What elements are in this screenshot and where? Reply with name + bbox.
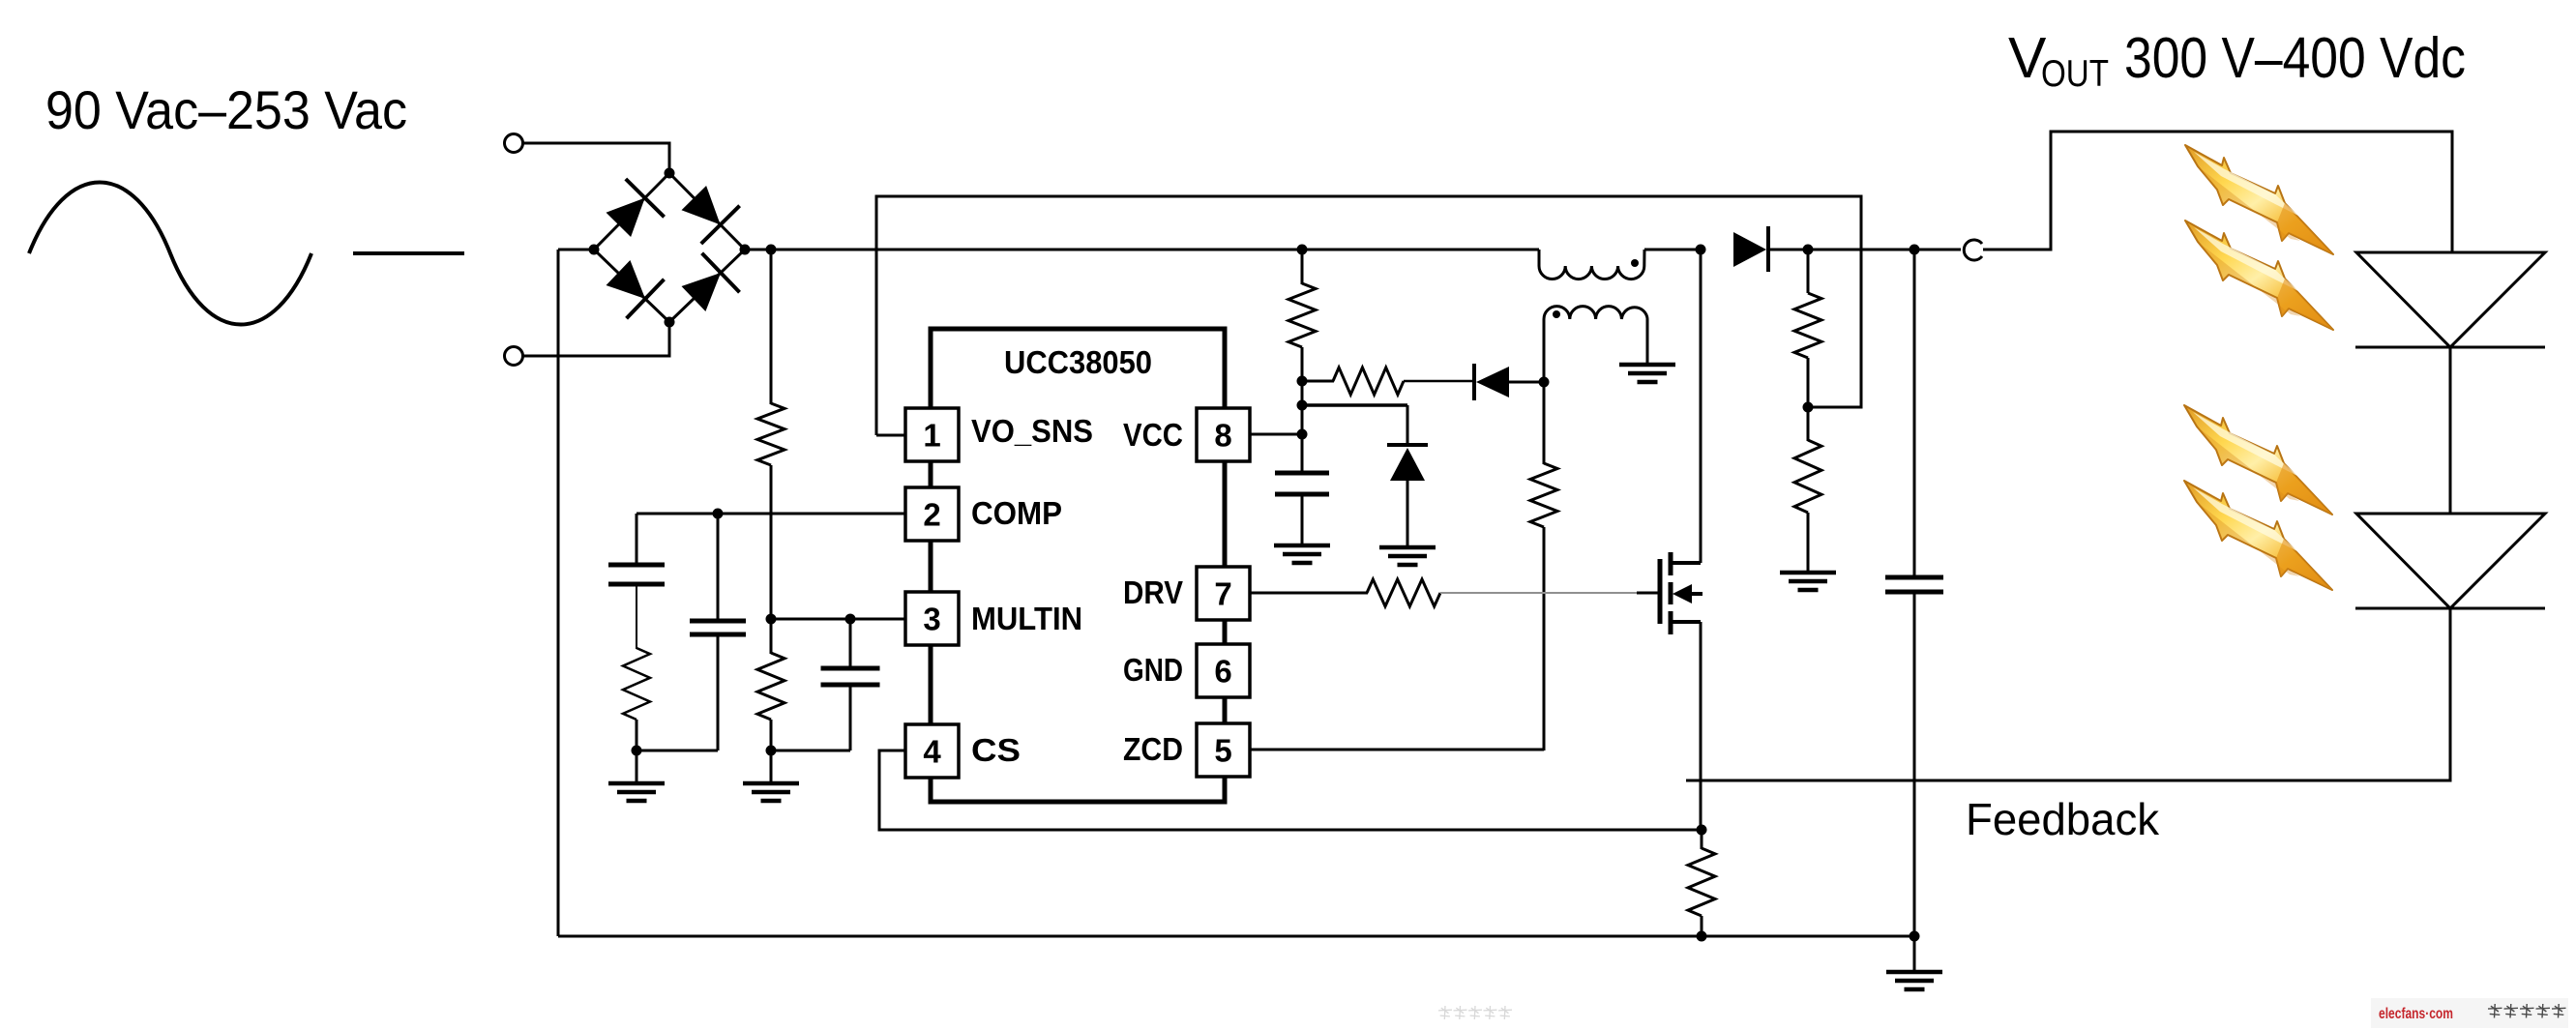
- wire zener branch: [1302, 403, 1407, 407]
- wire R9 to ground: [1807, 513, 1810, 573]
- transistor Q1 body arrow: [1673, 584, 1692, 603]
- watermark faint center: [1438, 1006, 1452, 1019]
- wire DRV pin7 to R7: [1250, 592, 1368, 595]
- wire secondary left to aux node: [1543, 319, 1546, 382]
- svg-text:3: 3: [923, 602, 940, 637]
- transistor Q1 drain stub: [1669, 561, 1701, 565]
- resistor R6 zcd: [1530, 463, 1557, 527]
- node vcc pin8 tap: [1297, 429, 1308, 440]
- pin 8 box: [1197, 408, 1250, 461]
- wire R10 bottom stub: [1701, 916, 1703, 936]
- wire R2 to ground node: [770, 720, 773, 750]
- svg-text:GND: GND: [1123, 652, 1183, 688]
- resistor R9 output divider lower: [1794, 440, 1821, 513]
- zener diode D6 cathode bar: [1387, 443, 1428, 447]
- bridge rectifier BR1 diamond frame: [594, 173, 745, 322]
- transistor Q1 channel segments: [1669, 552, 1673, 575]
- resistor R1 input divider upper: [757, 403, 785, 465]
- wire main boost rail: [745, 249, 1539, 251]
- wire D8 to D9: [2449, 347, 2452, 514]
- svg-text:6: 6: [1214, 654, 1231, 690]
- wire C terminal to load loop: [1983, 132, 2452, 252]
- wire R4 to node: [1301, 347, 1304, 474]
- pin 7 box: [1197, 567, 1250, 620]
- wire AC bottom terminal to bridge bottom: [523, 322, 669, 356]
- wire bridge left vertex to outer left rail: [558, 249, 594, 251]
- svg-text:VCC: VCC: [1123, 417, 1183, 453]
- wire mid node down to R9: [1807, 407, 1810, 441]
- svg-text:5: 5: [1214, 733, 1231, 769]
- wire C3 stub bottom: [849, 685, 852, 750]
- ground GND6 under divider: [1780, 571, 1836, 575]
- node output divider top: [1803, 245, 1814, 255]
- wire C2 down: [717, 634, 720, 750]
- wire D9 down to feedback: [1686, 608, 2450, 780]
- transistor Q1 source stub: [1669, 620, 1701, 624]
- terminal circle AC top: [505, 134, 523, 153]
- diode D5 aux rectifier cathode bar: [1472, 364, 1476, 400]
- wire G7 stub: [1913, 936, 1916, 972]
- wire CS pin4 loop: [879, 750, 1702, 830]
- AC source V1 sine wave symbol: [29, 183, 311, 325]
- diode D7 boost cathode bar: [1766, 226, 1770, 272]
- wire dash between source and bridge: [353, 251, 464, 255]
- capacitor C4 vcc: [1275, 471, 1329, 476]
- wire C5 down to rail: [1913, 592, 1916, 936]
- svg-text:ZCD: ZCD: [1123, 731, 1183, 767]
- node sense resistor bottom: [1697, 931, 1707, 942]
- svg-text:MULTIN: MULTIN: [971, 601, 1082, 636]
- diode D5 aux rectifier triangle: [1476, 367, 1509, 397]
- node rail tap x797: [766, 245, 777, 255]
- diode D8 load upper: [2356, 252, 2545, 347]
- zener diode D6 lead bottom: [1406, 481, 1409, 547]
- ground GND2 under divider: [770, 750, 773, 783]
- diode D7 boost triangle: [1733, 232, 1766, 267]
- svg-text:300 V–400 Vdc: 300 V–400 Vdc: [2124, 26, 2466, 90]
- transistor Q1 gate bar: [1658, 559, 1663, 624]
- lightning bolt icon 2: [2185, 221, 2333, 330]
- wire R8 to mid node: [1807, 358, 1810, 407]
- watermark elecfans chinese: [2488, 1004, 2502, 1018]
- node COMP branch: [713, 509, 724, 519]
- wire R6 down to ZCD wire: [1543, 527, 1546, 750]
- node vcc zener tap: [1297, 400, 1308, 411]
- svg-text:4: 4: [923, 734, 941, 770]
- svg-text:UCC38050: UCC38050: [1004, 345, 1152, 381]
- lightning bolt icon 3: [2184, 405, 2332, 515]
- bridge diode D3 left-to-bottom arm: [607, 260, 665, 318]
- node bridge right: [740, 245, 751, 255]
- wire divider to R8: [1807, 250, 1810, 293]
- wire VO_SNS sense loop: [876, 196, 1861, 435]
- svg-text:Feedback: Feedback: [1966, 794, 2160, 844]
- wire mid node to sense loop: [1808, 406, 1861, 409]
- svg-text:90 Vac–253 Vac: 90 Vac–253 Vac: [45, 79, 407, 140]
- node output divider mid: [1803, 402, 1814, 413]
- wire COMP left branch down to C1: [636, 514, 638, 566]
- ground GND3 under C4: [1274, 544, 1330, 548]
- node bridge bottom: [665, 317, 675, 328]
- zener diode D6 triangle: [1390, 448, 1425, 481]
- resistor R10 current sense: [1688, 848, 1715, 916]
- wire D5 to aux node: [1509, 381, 1544, 384]
- node divider bottom: [766, 746, 777, 756]
- zener diode D6 lead top: [1406, 405, 1409, 446]
- bridge diode D4 bottom-to-right arm: [682, 253, 740, 311]
- svg-text:OUT: OUT: [2041, 53, 2109, 95]
- diode D9 load lower: [2356, 514, 2545, 608]
- wire AC top terminal to bridge top: [523, 143, 669, 173]
- wire C3 stub top: [849, 619, 852, 669]
- wire gate stub: [1637, 592, 1658, 595]
- wire MULTIN pin3: [770, 618, 905, 621]
- node rail tap x1346: [1297, 245, 1308, 255]
- wire secondary right to ground: [1646, 319, 1649, 365]
- pin 5 box: [1197, 723, 1250, 777]
- ground GND1 under comp network: [636, 750, 638, 783]
- capacitor C2 comp: [690, 619, 746, 624]
- node bridge top: [665, 168, 675, 179]
- wire COMP pin2 to RC network: [637, 513, 905, 515]
- wire Q1 drain up to rail: [1700, 250, 1703, 563]
- node source sense: [1697, 825, 1707, 836]
- pin 3 box: [905, 592, 959, 645]
- node vcc aux: [1297, 376, 1308, 387]
- lightning bolt icon 4: [2184, 481, 2332, 590]
- capacitor C3 multin: [821, 666, 880, 671]
- svg-text:elecfans·com: elecfans·com: [2379, 1006, 2453, 1022]
- wire left outer rail down: [557, 250, 560, 936]
- resistor R4 vcc startup: [1288, 283, 1316, 347]
- watermark elecfans background: [2371, 998, 2568, 1028]
- inductor T1 secondary winding: [1544, 307, 1647, 319]
- svg-text:1: 1: [923, 418, 940, 454]
- wire bridge tap down to R1: [770, 250, 773, 404]
- terminal C output: [1964, 240, 1982, 260]
- ground GND7 bottom rail: [1886, 970, 1942, 975]
- wire ZCD pin5: [1250, 749, 1544, 751]
- ground GND5 under secondary: [1619, 363, 1675, 368]
- lightning bolt icon 1: [2185, 145, 2333, 254]
- node bridge left: [589, 245, 600, 255]
- resistor R3 comp: [623, 648, 650, 720]
- resistor R5 aux series: [1333, 368, 1404, 395]
- op-amp controller U1 UCC38050 body: [931, 329, 1225, 802]
- inductor T1 primary winding: [1539, 250, 1644, 280]
- wire bottom ground rail: [558, 935, 1914, 938]
- node aux winding: [1539, 377, 1550, 388]
- svg-text:COMP: COMP: [971, 495, 1062, 531]
- wire R5 to D5: [1404, 380, 1474, 383]
- T1 secondary phase dot: [1553, 310, 1560, 318]
- pin 1 box: [905, 408, 959, 461]
- svg-text:7: 7: [1214, 576, 1231, 612]
- node MULTIN cap branch: [845, 614, 856, 625]
- wire comp bottom joining: [637, 750, 718, 752]
- resistor R7 gate: [1367, 579, 1440, 606]
- resistor R2 input divider lower: [757, 653, 785, 720]
- svg-text:VO_SNS: VO_SNS: [971, 413, 1093, 449]
- wire VCC pin8 stub: [1250, 433, 1302, 436]
- wire output rail to cap node: [1808, 249, 1914, 251]
- svg-text:CS: CS: [971, 732, 1021, 768]
- bridge diode D1 left-to-top arm: [607, 179, 665, 237]
- wire R1 to MULTIN node: [770, 465, 773, 620]
- svg-text:8: 8: [1214, 418, 1231, 454]
- capacitor C5 bulk output: [1885, 575, 1943, 580]
- wire cap node down: [1913, 250, 1916, 578]
- ground GND4 under zener: [1379, 545, 1436, 550]
- terminal circle AC bottom: [505, 347, 523, 366]
- svg-text:2: 2: [923, 497, 940, 533]
- wire C2 branch vertical: [717, 514, 720, 622]
- pin 4 box: [905, 724, 959, 778]
- pin 6 box: [1197, 644, 1250, 697]
- wire divider bottom to C3 bottom: [771, 750, 850, 752]
- wire aux branch to R5: [1302, 380, 1334, 383]
- wire Q1 source down: [1700, 622, 1703, 830]
- wire pin1 stub: [876, 434, 905, 437]
- node drain rail: [1696, 245, 1706, 255]
- resistor R8 output divider upper: [1794, 293, 1821, 358]
- wire MULTIN node down to R2: [770, 619, 773, 654]
- wire cap node to C terminal: [1914, 249, 1961, 251]
- svg-text:DRV: DRV: [1123, 574, 1183, 610]
- wire primary to drain node: [1644, 249, 1701, 251]
- node MULTIN tap: [766, 614, 777, 625]
- wire R3 to bottom node: [636, 720, 638, 750]
- capacitor C1 comp: [608, 563, 665, 568]
- pin 2 box: [905, 487, 959, 541]
- wire gate thin: [1440, 592, 1640, 594]
- wire C4 to ground: [1301, 494, 1304, 545]
- wire D7 to output node: [1768, 249, 1808, 251]
- node comp bottom: [632, 746, 642, 756]
- wire C1 to R3: [636, 584, 637, 649]
- wire aux node to R6: [1543, 382, 1546, 464]
- bridge diode D2 top-to-right arm: [682, 186, 740, 244]
- wire R10 top stub: [1701, 830, 1703, 849]
- T1 primary phase dot: [1631, 259, 1639, 267]
- wire rail down to R4: [1301, 250, 1304, 284]
- node bottom rail right: [1910, 931, 1920, 942]
- node output cap top: [1910, 245, 1920, 255]
